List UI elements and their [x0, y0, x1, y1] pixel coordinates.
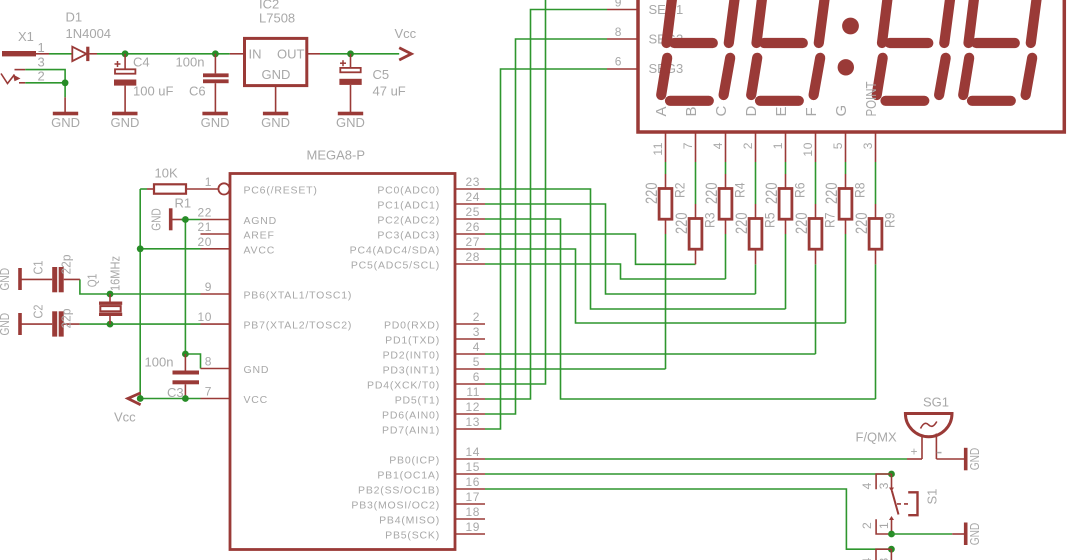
svg-text:PD2(INT0): PD2(INT0) — [383, 350, 440, 362]
wire net PB1 pin 15 to switch S1 — [485, 473, 892, 475]
wire X1 pin3 stub — [15, 69, 26, 71]
svg-text:AREF: AREF — [244, 230, 275, 242]
wire net PC1 pin 24 to R5 — [485, 204, 756, 294]
ground GND rotated at SG1 — [964, 448, 982, 471]
junction at C5 — [347, 50, 354, 57]
wire net PD5 pin 11 to display SEG1 — [485, 10, 607, 400]
svg-text:R2: R2 — [671, 182, 687, 198]
svg-text:220: 220 — [852, 213, 871, 235]
svg-text:PC5(ADC5/SCL): PC5(ADC5/SCL) — [351, 260, 440, 272]
svg-text:2: 2 — [741, 142, 755, 149]
wire net PB0 pin 14 to buzzer SG1 — [485, 458, 907, 460]
wire net R4 bottom to jog — [725, 234, 727, 279]
svg-text:SG1: SG1 — [923, 395, 949, 410]
svg-text:PC0(ADC0): PC0(ADC0) — [377, 185, 440, 197]
svg-text:C4: C4 — [133, 55, 150, 70]
svg-text:2: 2 — [860, 522, 874, 529]
svg-text:2: 2 — [38, 69, 45, 84]
wire net display pins to resistor tops — [666, 162, 876, 204]
svg-text:VCC: VCC — [244, 394, 269, 406]
junction X1 ground net — [62, 79, 69, 86]
svg-text:C2: C2 — [31, 305, 46, 319]
svg-text:PC1(ADC1): PC1(ADC1) — [377, 200, 440, 212]
ground GND below C6 — [201, 112, 230, 130]
svg-text:28: 28 — [465, 250, 480, 264]
diode D1 1N4004 — [66, 10, 112, 62]
svg-text:PB6(XTAL1/TOSC1): PB6(XTAL1/TOSC1) — [244, 290, 353, 302]
wire net R2 bottom to PD3 — [665, 234, 667, 369]
resistor R1 10K — [147, 166, 218, 211]
svg-text:GND: GND — [261, 115, 290, 130]
junction C3 bottom — [182, 395, 189, 402]
junction S2 top — [888, 546, 895, 553]
svg-text:22p: 22p — [59, 309, 74, 329]
svg-text:GND: GND — [967, 523, 982, 546]
svg-text:GND: GND — [0, 313, 12, 336]
junction crystal bottom — [107, 321, 114, 328]
junction C3 top — [182, 351, 189, 358]
junction AVCC at Vcc vertical — [137, 245, 144, 252]
svg-text:3: 3 — [473, 325, 480, 339]
switch S2 partial at bottom edge — [860, 549, 891, 560]
svg-text:11: 11 — [651, 142, 665, 156]
svg-text:26: 26 — [465, 220, 480, 234]
svg-text:PB5(SCK): PB5(SCK) — [385, 530, 440, 542]
wire net XTAL2 pin 10 — [80, 323, 201, 325]
svg-text:GND: GND — [262, 67, 291, 82]
svg-text:GND: GND — [336, 115, 365, 130]
junction S1 bottom — [888, 531, 895, 538]
svg-text:IN: IN — [249, 47, 262, 62]
display segment letter labels A-G POINT — [653, 82, 880, 117]
wire net AVCC pin 20 — [140, 248, 200, 250]
resistor R3 220 — [672, 204, 717, 264]
svg-text:R9: R9 — [881, 212, 897, 228]
wire net GND pin 8 jog — [185, 354, 200, 369]
svg-text:220: 220 — [762, 183, 781, 205]
svg-text:G: G — [833, 105, 850, 117]
display SEG labels — [649, 2, 684, 76]
connector X1 tip contact — [2, 29, 45, 84]
svg-text:PB2(SS/OC1B): PB2(SS/OC1B) — [358, 485, 440, 497]
svg-text:220: 220 — [642, 183, 661, 205]
svg-text:X1: X1 — [18, 29, 34, 44]
pin numbers MCU left — [197, 175, 212, 399]
svg-text:16MHz: 16MHz — [108, 256, 123, 291]
ground GND below C4 — [110, 112, 139, 130]
svg-text:OUT: OUT — [277, 47, 305, 62]
svg-text:24: 24 — [465, 190, 480, 204]
svg-text:1: 1 — [205, 175, 212, 189]
svg-text:10K: 10K — [155, 166, 178, 181]
svg-text:S1: S1 — [924, 489, 939, 505]
resistor R2 220 — [642, 174, 687, 234]
wire IC2 IN stub — [230, 53, 245, 55]
wire net X1 to D1 anode — [49, 53, 72, 55]
wire MCU left pin stubs — [201, 220, 231, 399]
svg-text:R7: R7 — [821, 212, 837, 228]
svg-text:AVCC: AVCC — [244, 245, 276, 257]
display digit 4 segments — [963, 0, 1038, 101]
svg-text:7: 7 — [681, 142, 695, 149]
wire net PD6 pin 12 to display SEG2 — [485, 39, 607, 414]
svg-text:B: B — [683, 106, 700, 116]
pin numbers display bottom — [651, 142, 875, 157]
svg-text:1: 1 — [38, 40, 45, 55]
wire net PC0 pin 23 to R6 — [485, 189, 786, 309]
wire net PD3 pin 5 to R2 — [485, 368, 666, 370]
resistor R9 220 — [852, 204, 897, 264]
svg-text:R6: R6 — [791, 182, 807, 198]
svg-text:PD6(AIN0): PD6(AIN0) — [382, 410, 440, 422]
wire net VCC pin 7 — [140, 398, 200, 400]
wire X1 pin2 stub — [19, 82, 25, 84]
power symbol Vcc bottom — [114, 393, 141, 425]
svg-text:100n: 100n — [176, 55, 205, 70]
svg-text:15: 15 — [465, 460, 480, 474]
wire net X1 pins 2-3 to ground — [25, 70, 65, 98]
svg-text:C: C — [713, 106, 730, 117]
wire net S1 bottom to ground — [892, 533, 953, 535]
display digit 3 segments — [877, 0, 952, 101]
svg-text:10: 10 — [801, 142, 815, 157]
wire net R9 bottom to PC2 — [875, 264, 877, 399]
svg-text:1: 1 — [877, 522, 891, 529]
svg-text:6: 6 — [473, 370, 480, 384]
svg-text:GND: GND — [244, 364, 270, 376]
svg-text:3: 3 — [861, 142, 875, 149]
svg-text:+: + — [911, 445, 918, 459]
power symbol Vcc top — [395, 26, 417, 60]
svg-text:220: 220 — [672, 213, 691, 235]
junction AGND — [182, 216, 189, 223]
svg-text:PB1(OC1A): PB1(OC1A) — [377, 470, 440, 482]
wire X1 pin1 stub — [36, 53, 49, 55]
svg-text:GND: GND — [149, 208, 164, 231]
pin 1 inversion bubble PC6(/RESET) — [218, 183, 229, 194]
svg-text:23: 23 — [465, 175, 480, 189]
wire MCU right pin stubs — [455, 189, 485, 534]
svg-text:18: 18 — [465, 505, 480, 519]
capacitor C3 100n — [145, 354, 200, 400]
svg-text:4: 4 — [711, 142, 725, 149]
svg-text:GND: GND — [201, 115, 230, 130]
svg-text:8: 8 — [205, 355, 212, 369]
ground GND rotated at C2 — [0, 313, 22, 336]
svg-text:220: 220 — [792, 213, 811, 235]
svg-text:R3: R3 — [701, 212, 717, 228]
pin name labels MCU right — [350, 185, 440, 542]
svg-text:PB0(ICP): PB0(ICP) — [389, 455, 440, 467]
svg-text:Vcc: Vcc — [395, 26, 417, 41]
svg-text:PB4(MISO): PB4(MISO) — [379, 515, 440, 527]
wire net R8 bottom to jog — [845, 234, 847, 323]
voltage regulator IC2 L7508 — [245, 0, 307, 86]
wire net PD4 pin 6 to display SEG0 — [485, 0, 546, 384]
svg-text:100n: 100n — [145, 355, 174, 370]
svg-text:D1: D1 — [66, 10, 83, 25]
svg-text:3: 3 — [38, 55, 45, 70]
IC MEGA8-P U1 box — [230, 148, 455, 550]
svg-text:PB3(MOSI/OC2): PB3(MOSI/OC2) — [351, 500, 440, 512]
wire net PD7 pin 13 to display SEG3 — [485, 69, 607, 429]
svg-text:22p: 22p — [59, 255, 74, 275]
junction S1 top — [888, 471, 895, 478]
svg-text:20: 20 — [197, 235, 212, 249]
svg-text:PD0(RXD): PD0(RXD) — [384, 320, 440, 332]
svg-text:D: D — [743, 106, 760, 117]
resistor R5 220 — [732, 204, 777, 264]
svg-text:47 uF: 47 uF — [373, 84, 406, 99]
svg-text:21: 21 — [197, 220, 212, 234]
svg-text:C1: C1 — [31, 261, 46, 275]
svg-text:R5: R5 — [761, 212, 777, 228]
svg-text:12: 12 — [465, 400, 480, 414]
svg-text:GND: GND — [967, 448, 982, 471]
capacitor C5 47 uF polarized — [339, 54, 405, 112]
svg-text:PD3(INT1): PD3(INT1) — [383, 365, 440, 377]
svg-text:POINT: POINT — [863, 82, 880, 117]
svg-text:A: A — [653, 106, 670, 116]
wire net PC5 pin 28 to R4 — [485, 264, 726, 279]
svg-text:R8: R8 — [851, 182, 867, 198]
display left pin stubs SEG1 SEG2 SEG3 — [607, 10, 637, 70]
wire net R7 bottom to PD2 — [815, 264, 817, 354]
wire net Vcc vertical R1 to Vcc arrow — [140, 189, 147, 399]
svg-text:PD7(AIN1): PD7(AIN1) — [382, 425, 440, 437]
wire net R5 bottom to jog — [755, 264, 757, 294]
svg-text:R1: R1 — [175, 196, 192, 211]
ground GND below C5 — [336, 112, 365, 130]
svg-text:5: 5 — [831, 142, 845, 149]
svg-text:2: 2 — [473, 310, 480, 324]
resistor R8 220 — [822, 174, 867, 234]
svg-text:PC4(ADC4/SDA): PC4(ADC4/SDA) — [350, 245, 440, 257]
svg-text:27: 27 — [465, 235, 480, 249]
wire net D1 cathode to IC2 IN — [97, 53, 230, 55]
svg-text:GND: GND — [51, 115, 80, 130]
svg-text:6: 6 — [615, 55, 622, 69]
svg-text:L7508: L7508 — [259, 11, 295, 26]
crystal Q1 16MHz — [85, 256, 123, 324]
junction at C6 — [212, 50, 219, 57]
svg-text:PC6(/RESET): PC6(/RESET) — [244, 185, 318, 197]
resistor R6 220 — [762, 174, 807, 234]
junction crystal top — [107, 291, 114, 298]
svg-text:PC3(ADC3): PC3(ADC3) — [377, 230, 440, 242]
pin numbers MCU right — [465, 175, 480, 534]
ground GND below IC2 — [261, 112, 290, 130]
display digit 2 segments — [751, 0, 826, 101]
svg-text:19: 19 — [465, 520, 480, 534]
capacitor C6 100n — [176, 54, 229, 112]
svg-text:Q1: Q1 — [85, 274, 100, 288]
wire net PD2 pin 4 to R7 — [485, 353, 816, 355]
svg-text:7: 7 — [205, 385, 212, 399]
resistor R7 220 — [792, 204, 837, 264]
wire net PC4 pin 27 to R8 — [485, 249, 846, 323]
svg-text:PD1(TXD): PD1(TXD) — [385, 335, 440, 347]
junction at C4 — [122, 50, 129, 57]
wire net PB2 pin 16 to switch S2 — [485, 489, 891, 549]
wire net R6 bottom to jog — [785, 234, 787, 309]
svg-text:22: 22 — [197, 206, 212, 220]
svg-text:C6: C6 — [189, 84, 206, 99]
capacitor C2 22p — [22, 305, 80, 337]
svg-text:5: 5 — [473, 355, 480, 369]
svg-text:Vcc: Vcc — [114, 410, 136, 425]
buzzer SG1 F/QMX — [856, 395, 965, 460]
svg-text:25: 25 — [465, 205, 480, 219]
svg-text:220: 220 — [732, 213, 751, 235]
wire IC2 GND lead — [275, 86, 277, 112]
capacitor C1 22p — [22, 255, 80, 293]
svg-text:8: 8 — [615, 25, 622, 39]
wire IC2 OUT stub — [307, 53, 320, 55]
pin numbers display left — [615, 0, 622, 69]
junction Vcc arrow — [137, 395, 144, 402]
wire net XTAL1 pin 9 — [80, 279, 201, 294]
wire net PC2 pin 25 to R9 — [485, 219, 876, 399]
svg-text:10: 10 — [197, 310, 212, 324]
svg-text:C5: C5 — [373, 67, 390, 82]
svg-text:F: F — [803, 107, 820, 116]
display LED 4-digit 7-segment box — [638, 0, 1064, 132]
pin name labels MCU left — [244, 185, 353, 407]
svg-text:9: 9 — [205, 280, 212, 294]
svg-text:GND: GND — [0, 268, 12, 291]
wire net AGND pin 22 — [181, 220, 201, 355]
svg-text:11: 11 — [466, 385, 480, 399]
connector X1 switch contact pin 2 — [1, 74, 21, 84]
svg-text:E: E — [773, 106, 790, 116]
svg-text:4: 4 — [473, 340, 480, 354]
display colon dots — [838, 18, 859, 76]
wire display bottom pin stubs — [666, 132, 876, 162]
svg-text:PC2(ADC2): PC2(ADC2) — [377, 215, 440, 227]
ground GND below X1 — [51, 97, 80, 130]
switch S1 — [860, 474, 939, 534]
svg-text:MEGA8-P: MEGA8-P — [307, 148, 366, 163]
svg-text:F/QMX: F/QMX — [856, 430, 897, 445]
svg-text:1N4004: 1N4004 — [66, 26, 112, 41]
svg-text:PD4(XCK/T0): PD4(XCK/T0) — [367, 380, 440, 392]
svg-text:1: 1 — [771, 142, 785, 149]
svg-text:PB7(XTAL2/TOSC2): PB7(XTAL2/TOSC2) — [244, 320, 353, 332]
capacitor C4 100 uF polarized — [114, 54, 174, 112]
svg-text:3: 3 — [877, 482, 891, 489]
svg-text:16: 16 — [465, 475, 480, 489]
svg-text:17: 17 — [465, 490, 480, 504]
display digit 1 segments — [661, 0, 736, 101]
wire net IC2 OUT to Vcc — [320, 53, 399, 55]
ground symbol rotated near pin 22 — [149, 208, 184, 231]
svg-text:220: 220 — [702, 183, 721, 205]
svg-text:AGND: AGND — [244, 215, 278, 227]
svg-text:13: 13 — [465, 415, 480, 429]
svg-text:GND: GND — [110, 115, 139, 130]
svg-text:R4: R4 — [731, 182, 747, 198]
svg-text:PD5(T1): PD5(T1) — [395, 395, 440, 407]
svg-text:220: 220 — [822, 183, 841, 205]
wire net PC3 pin 26 to R3 — [485, 234, 696, 264]
svg-text:100 uF: 100 uF — [133, 84, 174, 99]
ground GND rotated at C1 — [0, 268, 22, 291]
resistor R4 220 — [702, 174, 747, 234]
svg-text:14: 14 — [465, 445, 480, 459]
svg-text:4: 4 — [860, 482, 874, 489]
ground GND rotated at S1 — [952, 523, 982, 546]
svg-text:9: 9 — [615, 0, 622, 10]
